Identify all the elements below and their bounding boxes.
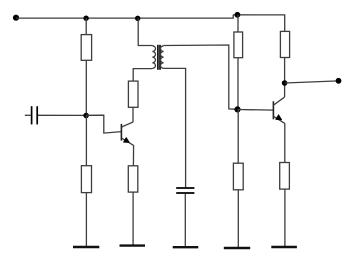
ground G3	[173, 246, 199, 248]
transistor Q1	[121, 122, 133, 145]
wire top rail right	[233, 15, 285, 32]
wire secondary top lead	[164, 45, 238, 109]
capacitor C2	[176, 188, 194, 193]
node junction Q2 collector	[282, 80, 288, 86]
ground G4	[224, 247, 250, 249]
resistor R8	[280, 163, 290, 190]
output terminal dot	[336, 78, 342, 84]
wire Q1 emitter to R4	[132, 145, 134, 166]
ground G2	[120, 244, 146, 246]
node junction top right	[235, 12, 241, 18]
transformer T1 primary winding	[152, 46, 155, 69]
wire Q1 base jog	[86, 115, 121, 133]
wire mid node down to R7	[237, 109, 239, 163]
transistor Q2	[273, 97, 284, 123]
resistor R6	[280, 31, 289, 57]
node junction top at transformer	[135, 16, 140, 21]
wire top rail left	[16, 15, 233, 18]
wire R3 to ground	[85, 193, 87, 246]
resistor R7	[233, 163, 243, 190]
ground G5	[271, 246, 297, 248]
resistor R4	[128, 166, 138, 192]
wire C1 left stub	[25, 114, 31, 116]
wire R8 to ground	[284, 189, 286, 246]
resistor R5	[234, 32, 243, 58]
wire primary bottom to R2	[133, 69, 152, 82]
wire R1 bottom to base node	[85, 60, 87, 115]
resistor R1	[81, 35, 91, 61]
wire Q1 collector to R2	[132, 107, 134, 122]
input terminal dot	[13, 15, 19, 21]
transformer T1 core	[158, 45, 160, 70]
capacitor C1 input	[32, 106, 38, 124]
wire secondary bottom to C2	[164, 68, 186, 187]
node junction top at R1	[83, 16, 88, 21]
resistor R3	[81, 166, 91, 193]
wire Q2 base	[238, 109, 274, 112]
wire base node down to R3	[85, 116, 87, 166]
wire R4 to ground	[132, 192, 134, 245]
wire transformer primary top lead	[138, 18, 152, 45]
wire collector to output terminal	[285, 81, 339, 83]
wire C2 to ground	[184, 194, 186, 246]
node junction mid right	[234, 106, 240, 112]
wire C1 to base node	[38, 114, 86, 116]
wire R1 top lead	[85, 18, 87, 34]
ground G1	[73, 246, 99, 248]
node junction C1 base	[83, 113, 89, 119]
transformer T1 secondary winding	[160, 46, 163, 69]
wire R5 bottom to mid node	[237, 58, 239, 110]
wire Q2 emitter to R8	[284, 123, 286, 162]
resistor R2	[128, 81, 138, 107]
wire R5 top lead	[237, 15, 239, 32]
wire R6 bottom to collector	[284, 58, 286, 98]
wire R7 to ground	[237, 190, 239, 247]
